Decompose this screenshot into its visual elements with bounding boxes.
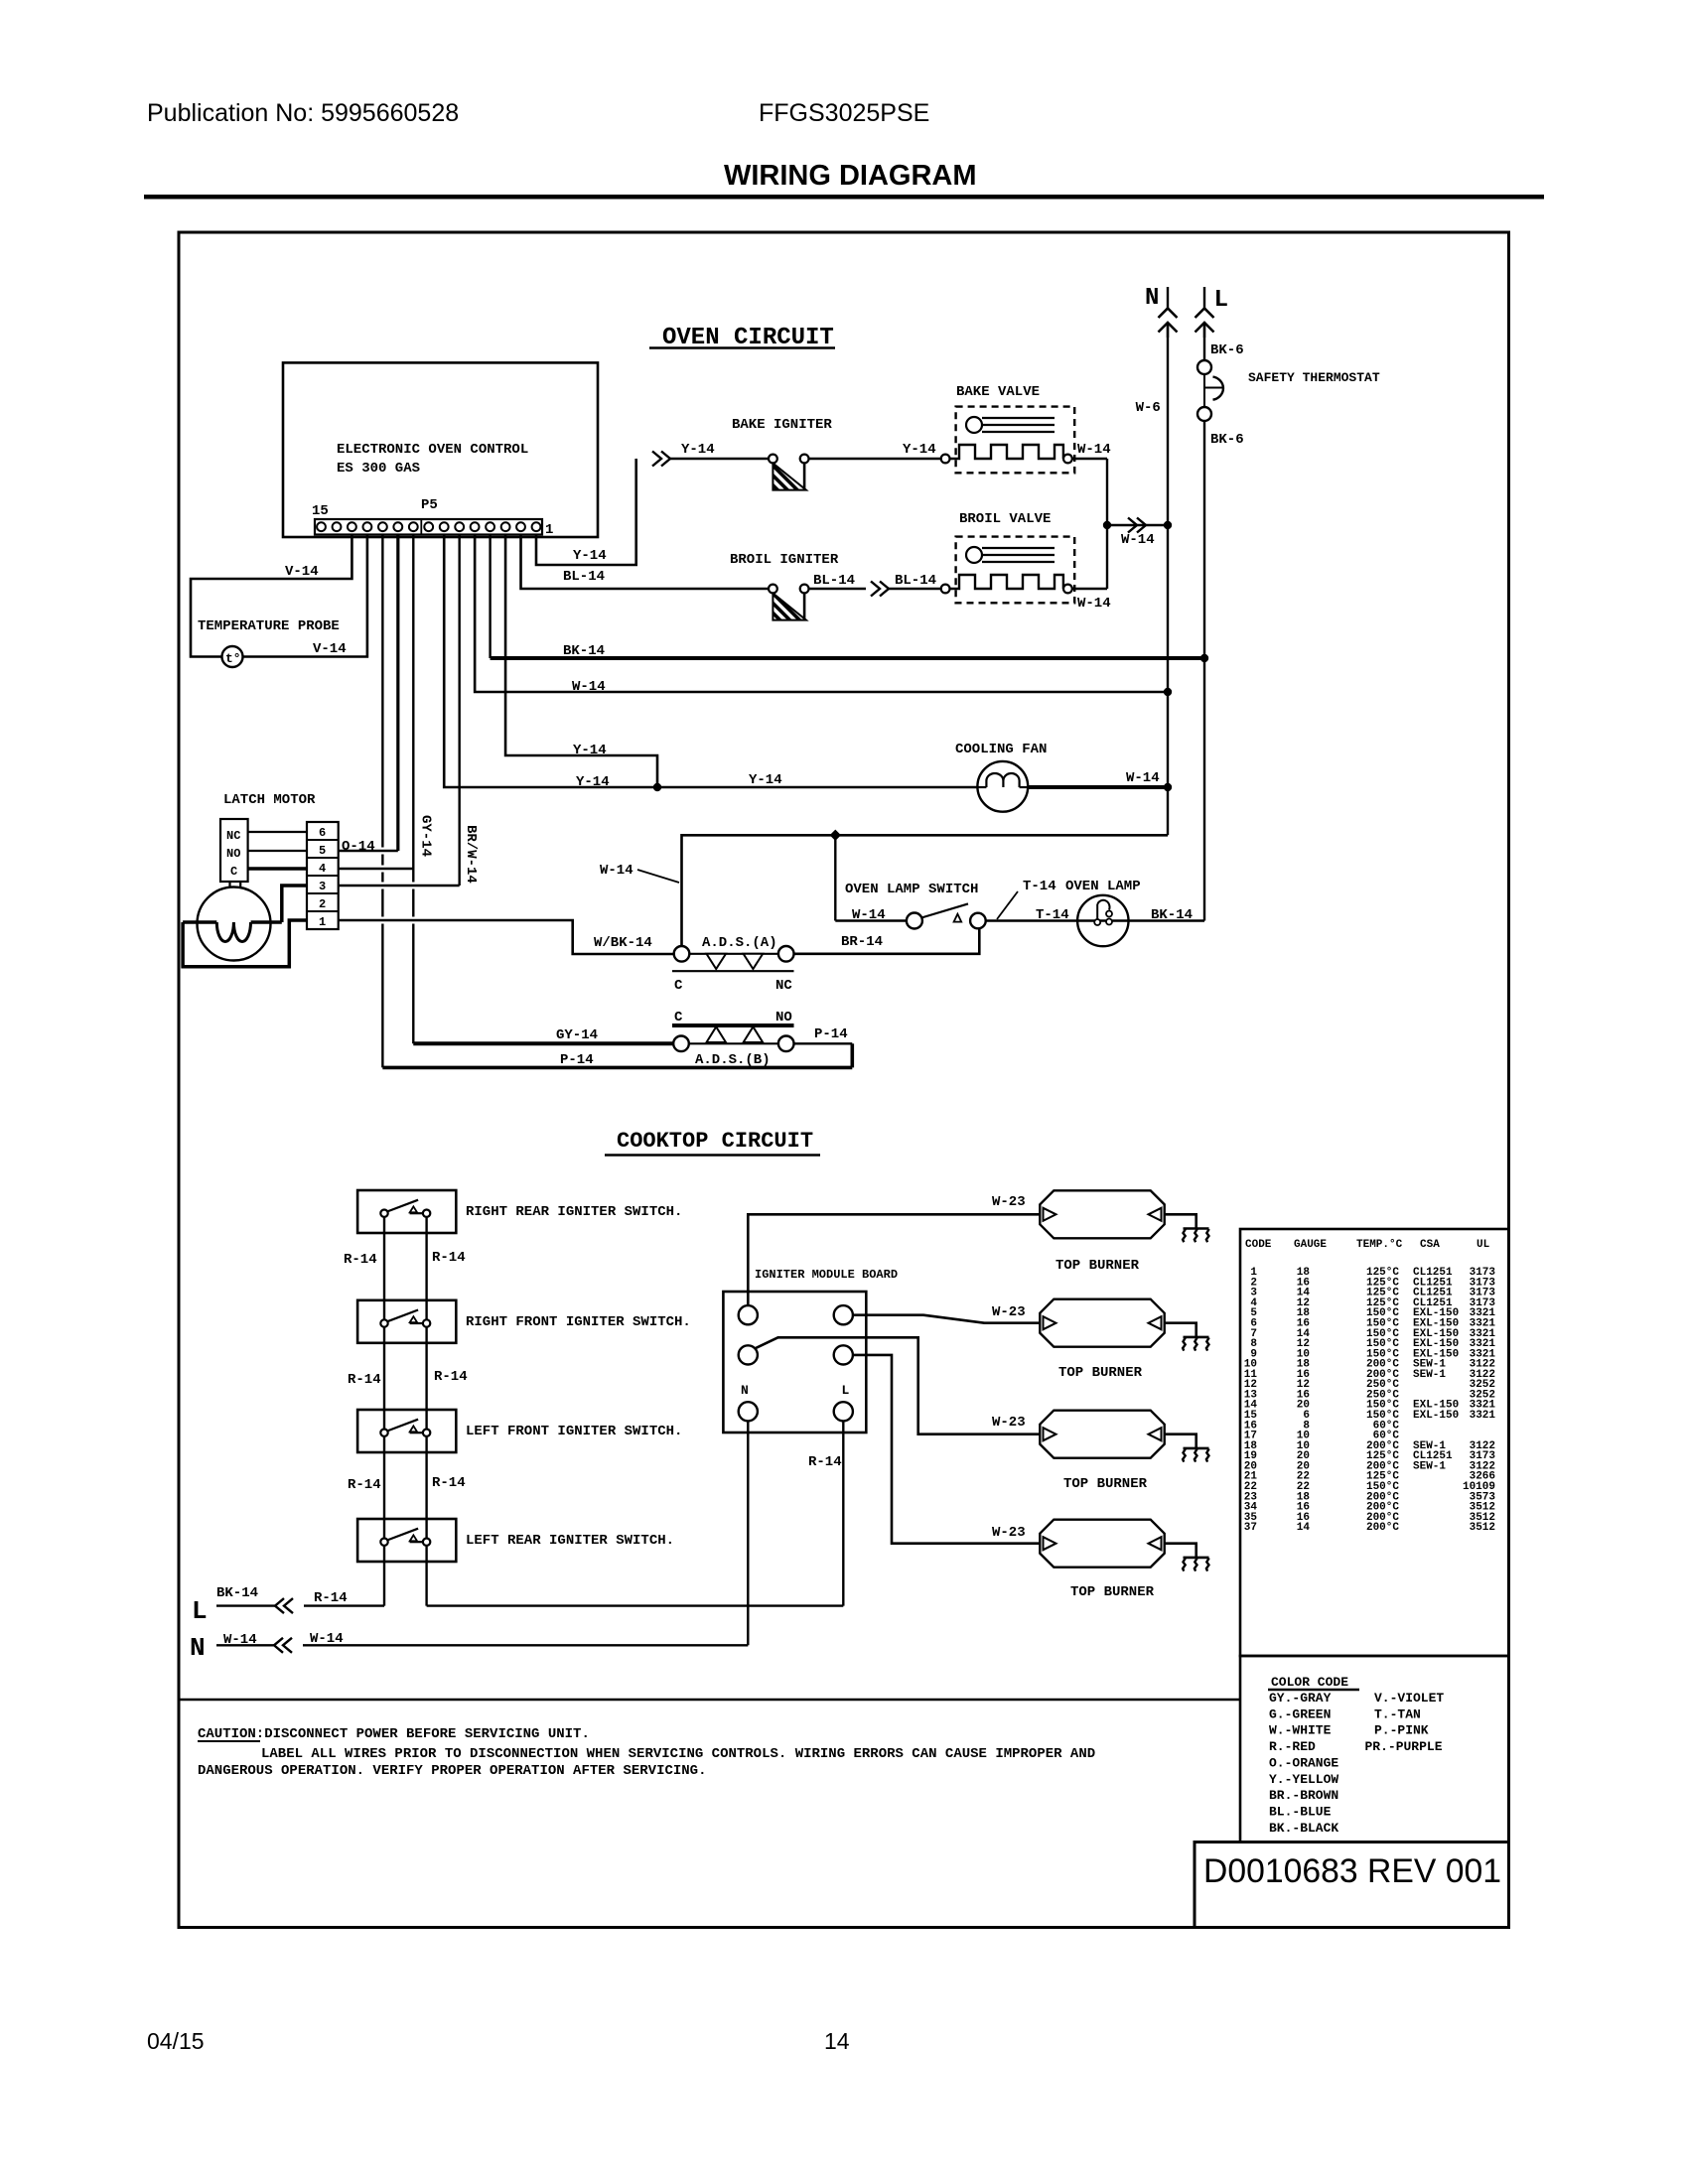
wire NC to cell 6 [248, 831, 307, 833]
wire P-14 pin11 to ADS(B) NO loop [381, 535, 383, 848]
svg-text:P-14: P-14 [560, 1052, 594, 1068]
svg-text:P.-PINK: P.-PINK [1374, 1723, 1429, 1738]
svg-text:W-6: W-6 [1136, 400, 1161, 416]
svg-text:TOP BURNER: TOP BURNER [1058, 1365, 1143, 1381]
svg-text:V-14: V-14 [313, 641, 347, 657]
svg-text:TEMPERATURE PROBE: TEMPERATURE PROBE [198, 618, 340, 634]
svg-text:37: 37 [1244, 1522, 1257, 1534]
ground 2 [1184, 1336, 1209, 1339]
svg-text:R-14: R-14 [808, 1454, 842, 1470]
wire W-23 module to top burner 3 [755, 1337, 1040, 1433]
svg-text:BROIL VALVE: BROIL VALVE [959, 511, 1051, 527]
svg-text:BK-6: BK-6 [1210, 342, 1244, 358]
wire W-14 to oven lamp switch [835, 919, 907, 921]
top burner 4 [1040, 1520, 1164, 1568]
svg-text:R-14: R-14 [432, 1475, 466, 1491]
svg-text:200°C: 200°C [1366, 1522, 1399, 1534]
svg-text:Y-14: Y-14 [681, 442, 715, 458]
svg-text:BK-14: BK-14 [563, 643, 605, 659]
wire BK-6 thermostat down L line [1203, 421, 1205, 921]
junction fan W-14 N line [1164, 783, 1172, 791]
svg-text:R-14: R-14 [348, 1477, 381, 1493]
wire BK-6 L to safety thermostat [1203, 324, 1205, 360]
svg-text:Y-14: Y-14 [576, 774, 610, 790]
wire R-14 module L to line bus [842, 1421, 844, 1605]
svg-text:3: 3 [319, 880, 326, 893]
svg-text:W-14: W-14 [1126, 770, 1160, 786]
svg-text:OVEN LAMP SWITCH: OVEN LAMP SWITCH [845, 882, 978, 897]
svg-text:ELECTRONIC OVEN CONTROL: ELECTRONIC OVEN CONTROL [337, 442, 528, 458]
svg-text:1: 1 [319, 915, 326, 929]
svg-text:SEW-1: SEW-1 [1413, 1369, 1446, 1381]
svg-text:W-14: W-14 [1121, 532, 1155, 548]
wire W-23 module to top burner 2 [853, 1315, 1040, 1323]
svg-text:2: 2 [319, 897, 326, 911]
svg-text:NO: NO [226, 847, 240, 861]
svg-text:Y-14: Y-14 [573, 548, 607, 564]
svg-text:N: N [190, 1633, 206, 1663]
svg-text:P5: P5 [421, 497, 438, 513]
svg-text:GAUGE: GAUGE [1294, 1239, 1327, 1251]
wire top burner 2 to ground [1165, 1323, 1196, 1337]
svg-text:TOP BURNER: TOP BURNER [1063, 1476, 1148, 1492]
svg-text:W-23: W-23 [992, 1194, 1026, 1210]
svg-text:RIGHT FRONT IGNITER SWITCH.: RIGHT FRONT IGNITER SWITCH. [466, 1314, 691, 1330]
wire W-14 cooling fan to N line [1028, 785, 1168, 789]
svg-text:C: C [674, 978, 683, 994]
module terminals [739, 1305, 758, 1324]
svg-text:TOP BURNER: TOP BURNER [1055, 1258, 1140, 1274]
wire BR-14 ADS(A) to lamp switch [794, 928, 980, 954]
junction valves W-14 [1103, 521, 1111, 529]
svg-text:C: C [230, 865, 237, 879]
svg-text:3512: 3512 [1470, 1522, 1495, 1534]
wire R-14 igniter switch right bus [425, 1217, 427, 1606]
svg-text:4: 4 [319, 862, 326, 876]
wire W-14 pin5 to N line [475, 535, 1168, 693]
temperature probe [222, 646, 243, 667]
wire R-14 igniter switch left bus [383, 1217, 385, 1606]
svg-text:NO: NO [775, 1010, 792, 1025]
svg-text:PR.-PURPLE: PR.-PURPLE [1365, 1739, 1443, 1754]
svg-text:SAFETY THERMOSTAT: SAFETY THERMOSTAT [1248, 370, 1380, 385]
wire top burner 1 to ground [1165, 1214, 1196, 1228]
switch blade [387, 1310, 418, 1322]
svg-text:5: 5 [319, 844, 326, 858]
svg-text:G.-GREEN: G.-GREEN [1269, 1706, 1331, 1721]
switch terminals [380, 1430, 387, 1436]
switch blade [387, 1420, 418, 1432]
electronic oven control ES 300 GAS box [283, 362, 598, 537]
wire W-23 module to top burner 4 [853, 1355, 1040, 1544]
wire BR/W-14 pin6 to latch cell 3 [458, 535, 460, 887]
svg-text:BAKE IGNITER: BAKE IGNITER [732, 417, 832, 433]
svg-text:TOP BURNER: TOP BURNER [1070, 1584, 1155, 1600]
svg-text:GY-14: GY-14 [556, 1027, 598, 1043]
switch terminals [380, 1319, 387, 1326]
svg-text:14: 14 [824, 2028, 850, 2054]
junction lamp feed [830, 830, 841, 841]
svg-text:04/15: 04/15 [147, 2028, 205, 2054]
ground 4 [1184, 1557, 1209, 1560]
svg-text:C: C [674, 1010, 683, 1025]
svg-text:L: L [192, 1596, 208, 1626]
svg-text:1: 1 [545, 522, 553, 538]
svg-text:L: L [1214, 287, 1228, 314]
wire V-14 probe to pin12 [243, 535, 367, 657]
svg-text:R-14: R-14 [434, 1369, 468, 1385]
latch motor contact block [220, 819, 248, 882]
wire W-14 broil valve to junction [1072, 588, 1107, 590]
wire T-14 switch to oven lamp [986, 919, 1204, 921]
svg-text:CSA: CSA [1420, 1239, 1440, 1251]
connector P5 strip [315, 519, 542, 535]
top burner 2 [1040, 1299, 1164, 1347]
svg-text:WIRING DIAGRAM: WIRING DIAGRAM [724, 160, 977, 192]
wire gauge table box [1240, 1229, 1509, 1656]
wire Y-14 pin3 branch [505, 535, 657, 788]
switch blade [387, 1529, 418, 1541]
oven lamp [1077, 895, 1128, 946]
latch motor terminal strip [307, 822, 339, 929]
svg-text:T.-TAN: T.-TAN [1374, 1706, 1421, 1721]
svg-text:A.D.S.(A): A.D.S.(A) [702, 935, 777, 951]
svg-text:L: L [842, 1383, 850, 1398]
svg-text:LEFT FRONT IGNITER SWITCH.: LEFT FRONT IGNITER SWITCH. [466, 1424, 682, 1439]
svg-text:P-14: P-14 [814, 1026, 848, 1042]
svg-text:R.-RED: R.-RED [1269, 1739, 1316, 1754]
svg-text:W/BK-14: W/BK-14 [594, 935, 652, 951]
svg-text:R-14: R-14 [344, 1252, 377, 1268]
wire BL-14 broil igniter to broil valve [809, 588, 867, 590]
right rear igniter switch box [357, 1190, 456, 1233]
svg-text:T-14: T-14 [1023, 879, 1056, 894]
svg-text:CODE: CODE [1245, 1239, 1272, 1251]
svg-text:LATCH MOTOR: LATCH MOTOR [223, 792, 316, 808]
top burner 3 [1040, 1411, 1164, 1458]
wire W-23 module to top burner 1 [748, 1214, 1040, 1305]
junction BK-14 L line [1200, 654, 1208, 662]
svg-text:W-23: W-23 [992, 1525, 1026, 1541]
wire R-14 switches to module L [427, 1604, 844, 1606]
wire W-6 N supply line [1167, 324, 1169, 835]
svg-text:W.-WHITE: W.-WHITE [1269, 1723, 1332, 1738]
svg-text:BROIL IGNITER: BROIL IGNITER [730, 552, 839, 568]
wire W-14 bake valve to junction [1072, 458, 1107, 460]
svg-text:W-23: W-23 [992, 1415, 1026, 1431]
wire BK-14/R-14 line bus [216, 1604, 275, 1606]
svg-text:BL-14: BL-14 [895, 573, 936, 589]
svg-text:NC: NC [226, 829, 240, 843]
ground 1 [1184, 1227, 1209, 1230]
svg-text:O-14: O-14 [342, 839, 375, 855]
junction W-14 N line [1164, 688, 1172, 696]
wire Y-14 bake igniter to bake valve [809, 458, 941, 460]
svg-text:BAKE VALVE: BAKE VALVE [956, 384, 1040, 400]
svg-text:D0010683 REV 001: D0010683 REV 001 [1203, 1852, 1501, 1890]
svg-text:NC: NC [775, 978, 792, 994]
svg-text:SEW-1: SEW-1 [1413, 1460, 1446, 1472]
svg-text:BR.-BROWN: BR.-BROWN [1269, 1788, 1338, 1803]
wire Y-14 pin7 to cooling fan [444, 535, 977, 788]
svg-text:COLOR CODE: COLOR CODE [1271, 1675, 1348, 1690]
wire W-14 neutral bus [216, 1644, 274, 1646]
latch motor [198, 887, 271, 961]
svg-text:t°: t° [225, 651, 241, 666]
switch blade [387, 1200, 418, 1212]
wire BK-14 pin4 to L line [489, 535, 491, 659]
svg-text:RIGHT REAR IGNITER SWITCH.: RIGHT REAR IGNITER SWITCH. [466, 1204, 682, 1220]
revision box [1195, 1843, 1509, 1928]
svg-text:Y-14: Y-14 [573, 743, 607, 758]
svg-text:TEMP.°C: TEMP.°C [1356, 1239, 1403, 1251]
svg-text:BR/W-14: BR/W-14 [463, 825, 479, 884]
svg-text:R-14: R-14 [348, 1372, 381, 1388]
svg-text:Publication No: 5995660528: Publication No: 5995660528 [147, 99, 459, 127]
wire BL-14 pin2 to broil igniter [521, 535, 769, 590]
svg-text:COOLING FAN: COOLING FAN [955, 742, 1047, 757]
top burner 1 [1040, 1190, 1164, 1238]
svg-text:W-14: W-14 [310, 1631, 344, 1647]
node on N line [1164, 521, 1172, 529]
svg-text:W-14: W-14 [600, 863, 633, 879]
svg-text:Y-14: Y-14 [903, 442, 936, 458]
svg-text:Y-14: Y-14 [749, 772, 782, 788]
svg-text:BK-6: BK-6 [1210, 432, 1244, 448]
svg-text:W-14: W-14 [1077, 596, 1111, 612]
junction Y-14 [653, 783, 661, 791]
left rear igniter switch box [357, 1519, 456, 1562]
svg-text:Y.-YELLOW: Y.-YELLOW [1269, 1772, 1338, 1787]
svg-text:ES 300 GAS: ES 300 GAS [337, 461, 420, 477]
wire W-14 N line to lamp switch and ADS(A) [682, 835, 1169, 946]
motor winding [183, 920, 216, 924]
svg-text:A.D.S.(B): A.D.S.(B) [695, 1052, 771, 1068]
wire valve outputs vertical [1106, 459, 1108, 589]
wire W/BK-14 latch cell 1 to ADS(A) [339, 920, 674, 954]
svg-text:BR-14: BR-14 [841, 934, 883, 950]
color code box [1240, 1656, 1509, 1843]
wire GY-14 pin9 latch cell 4 and ADS(B) [412, 535, 414, 883]
svg-text:BL.-BLUE: BL.-BLUE [1269, 1805, 1332, 1820]
svg-text:BK-14: BK-14 [216, 1585, 258, 1601]
wire NO to cell 5 [248, 850, 307, 852]
wire W-14 junction to N line [1107, 524, 1168, 526]
wire V-14 pin13 to temperature probe [191, 535, 352, 657]
svg-text:15: 15 [312, 503, 329, 519]
svg-text:6: 6 [319, 826, 326, 840]
svg-text:DANGEROUS OPERATION. VERIFY PR: DANGEROUS OPERATION. VERIFY PROPER OPERA… [198, 1763, 706, 1779]
svg-text:FFGS3025PSE: FFGS3025PSE [759, 99, 929, 127]
wire motor loop to cell 1 [183, 920, 307, 967]
svg-text:EXL-150: EXL-150 [1413, 1410, 1459, 1422]
svg-text:GY-14: GY-14 [418, 815, 434, 857]
switch terminals [380, 1210, 387, 1217]
svg-text:T-14: T-14 [1036, 907, 1069, 923]
svg-text:BL-14: BL-14 [563, 569, 605, 585]
svg-text:W-23: W-23 [992, 1304, 1026, 1320]
svg-text:R-14: R-14 [314, 1590, 348, 1606]
main diagram border [179, 232, 1509, 1928]
svg-text:GY.-GRAY: GY.-GRAY [1269, 1691, 1332, 1706]
svg-text:V.-VIOLET: V.-VIOLET [1374, 1691, 1444, 1706]
svg-text:LEFT REAR IGNITER SWITCH.: LEFT REAR IGNITER SWITCH. [466, 1533, 674, 1549]
svg-text:UL: UL [1477, 1239, 1490, 1251]
svg-text:3321: 3321 [1470, 1410, 1496, 1422]
svg-text:OVEN LAMP: OVEN LAMP [1065, 879, 1141, 894]
svg-text:O.-ORANGE: O.-ORANGE [1269, 1755, 1338, 1770]
svg-text:CAUTION:DISCONNECT POWER BEFOR: CAUTION:DISCONNECT POWER BEFORE SERVICIN… [198, 1726, 590, 1742]
wire O-14 pin10 to latch cell 5 [396, 535, 399, 852]
svg-text:W-14: W-14 [572, 679, 606, 695]
svg-text:BK.-BLACK: BK.-BLACK [1269, 1821, 1338, 1836]
wire Y-14 pin1 to bake igniter [536, 459, 636, 565]
caution section separator [179, 1699, 1240, 1702]
header rule [144, 195, 1544, 200]
svg-text:BK-14: BK-14 [1151, 907, 1193, 923]
wire C to cell 4 [248, 867, 307, 871]
svg-text:COOKTOP CIRCUIT: COOKTOP CIRCUIT [617, 1129, 813, 1154]
svg-text:V-14: V-14 [285, 564, 319, 580]
svg-text:14: 14 [1297, 1522, 1311, 1534]
svg-text:N: N [1145, 285, 1159, 312]
wire GY-14 to ADS(B) C terminal [413, 1041, 673, 1045]
wire top burner 4 to ground [1165, 1544, 1196, 1558]
svg-text:N: N [741, 1383, 749, 1398]
switch terminals [380, 1539, 387, 1546]
right front igniter switch box [357, 1300, 456, 1343]
wire module N to neutral bus [747, 1421, 749, 1645]
svg-text:W-14: W-14 [852, 907, 886, 923]
left front igniter switch box [357, 1410, 456, 1452]
svg-text:R-14: R-14 [432, 1250, 466, 1266]
ground 3 [1184, 1447, 1209, 1450]
svg-text:LABEL ALL WIRES PRIOR TO DISCO: LABEL ALL WIRES PRIOR TO DISCONNECTION W… [261, 1746, 1095, 1762]
svg-text:IGNITER MODULE BOARD: IGNITER MODULE BOARD [755, 1268, 898, 1282]
svg-text:BL-14: BL-14 [813, 573, 855, 589]
svg-text:W-14: W-14 [1077, 442, 1111, 458]
wire top burner 3 to ground [1165, 1434, 1196, 1448]
wire winding to cell 3 [282, 886, 307, 922]
